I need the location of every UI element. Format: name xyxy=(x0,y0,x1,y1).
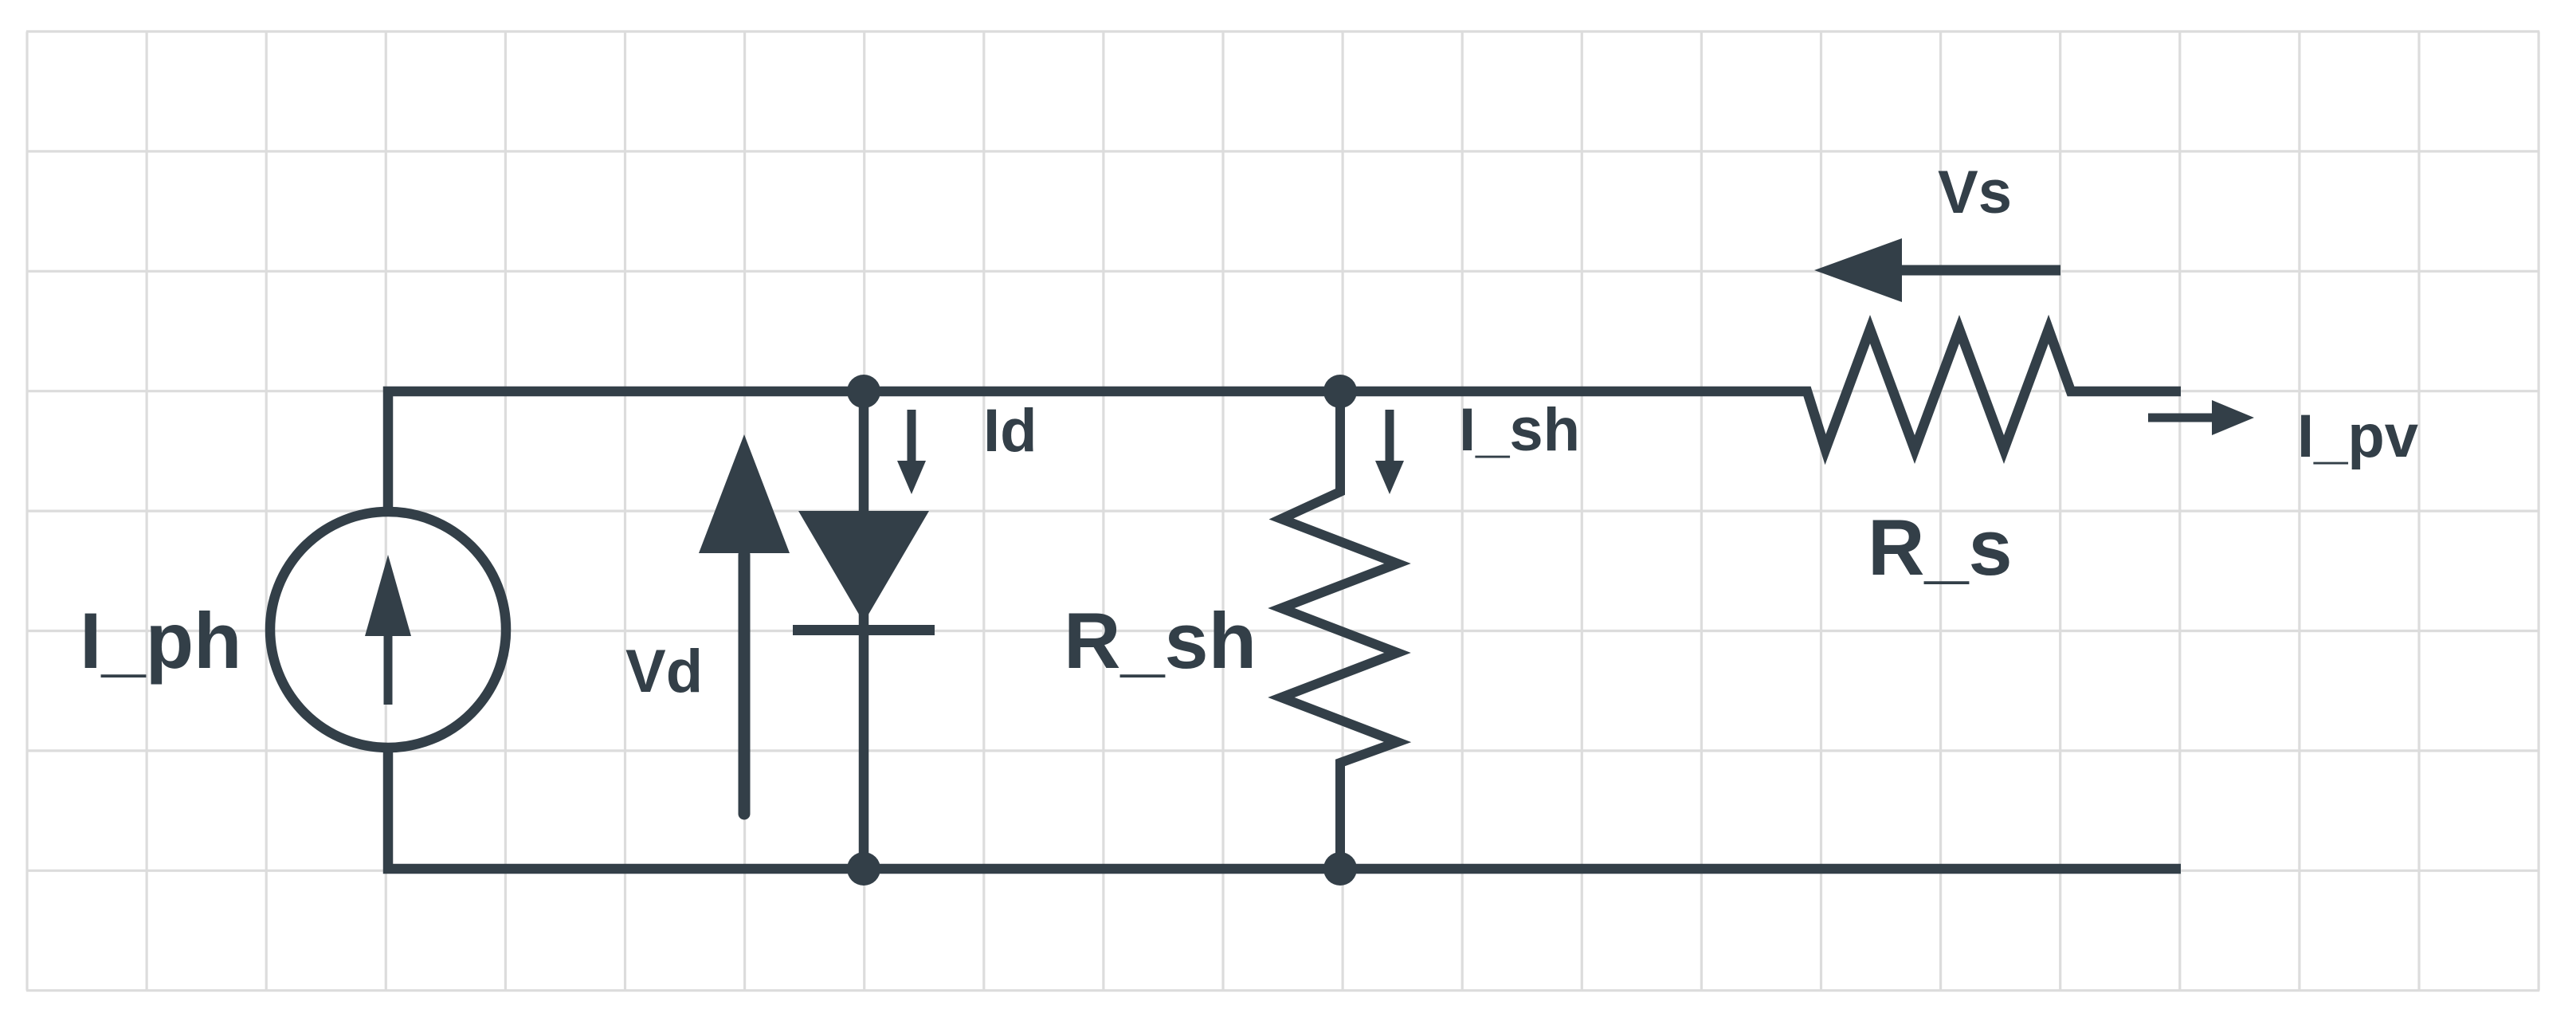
svg-text:R_sh: R_sh xyxy=(1064,596,1257,685)
svg-text:I_sh: I_sh xyxy=(1459,396,1580,464)
svg-text:Vs: Vs xyxy=(1938,159,2012,226)
svg-text:I_pv: I_pv xyxy=(2297,403,2418,470)
svg-text:Vd: Vd xyxy=(625,638,703,705)
svg-text:Id: Id xyxy=(983,397,1037,465)
svg-text:I_ph: I_ph xyxy=(80,596,242,685)
svg-text:R_s: R_s xyxy=(1868,503,2013,591)
